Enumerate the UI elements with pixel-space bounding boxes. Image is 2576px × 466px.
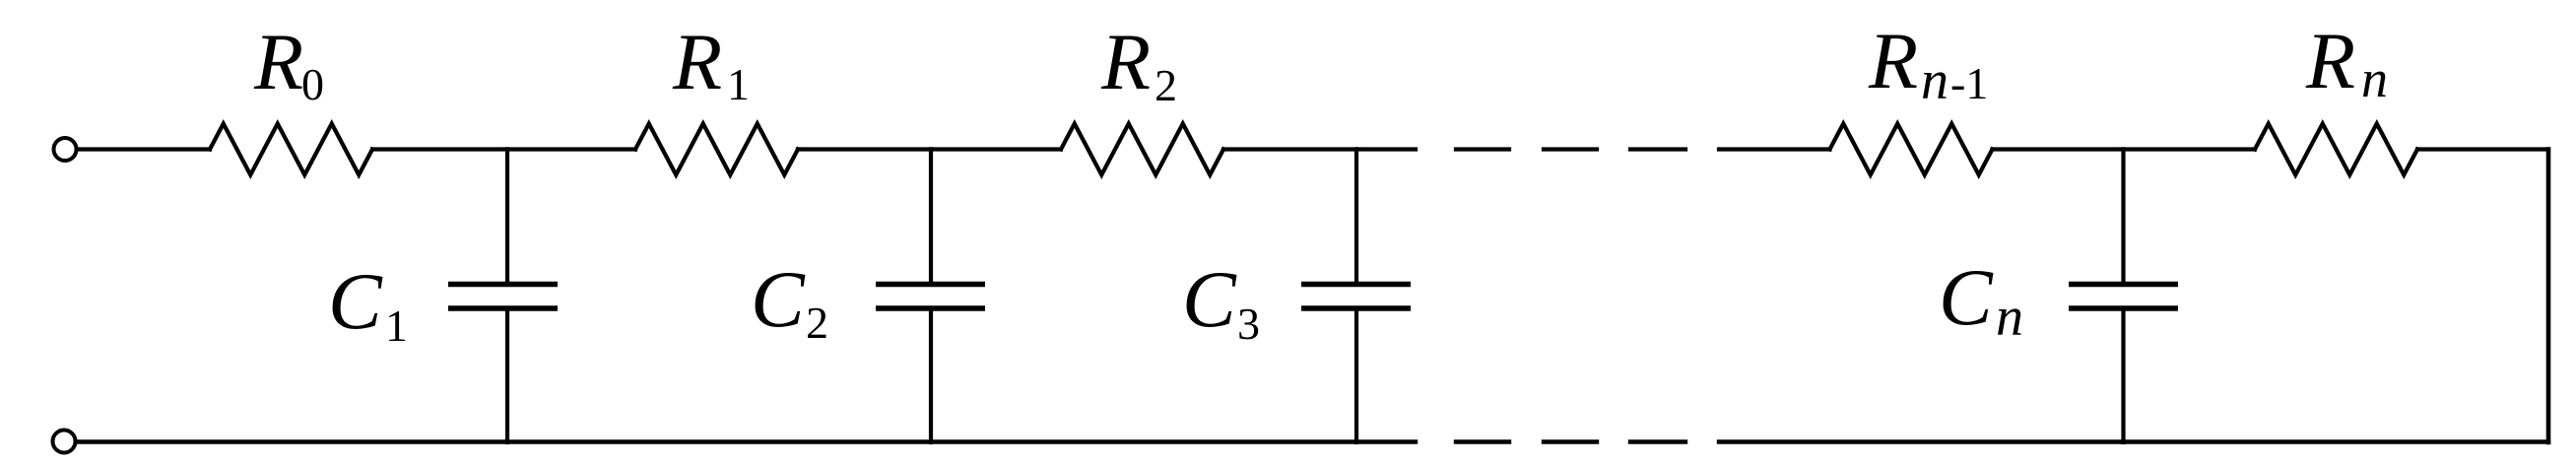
wire: bottom rail dash 1 bbox=[1456, 439, 1509, 443]
svg-text:0: 0 bbox=[301, 59, 324, 109]
svg-text:2: 2 bbox=[1155, 60, 1177, 110]
wire: bottom rail dash 2 bbox=[1544, 439, 1597, 443]
wire: top rail, node C3 to break bbox=[1356, 147, 1416, 151]
resistor R0 bbox=[210, 124, 372, 175]
svg-text:2: 2 bbox=[806, 298, 828, 348]
resistor R2 bbox=[1061, 124, 1223, 175]
svg-text:R: R bbox=[1868, 16, 1918, 105]
svg-text:n: n bbox=[2361, 49, 2388, 108]
svg-text:C: C bbox=[1939, 252, 1994, 342]
wire: bottom rail, break to right edge bbox=[1719, 439, 2548, 443]
wire: top rail, terminal to R0 bbox=[77, 147, 210, 151]
terminal: input top-left bbox=[54, 138, 77, 161]
wire: bottom rail dash 3 bbox=[1630, 439, 1685, 443]
capacitor C3 bbox=[1301, 150, 1411, 443]
resistor Rn bbox=[2255, 124, 2417, 175]
svg-text:C: C bbox=[1182, 254, 1237, 344]
svg-text:-1: -1 bbox=[1950, 58, 1988, 108]
svg-text:1: 1 bbox=[727, 59, 750, 109]
svg-text:R: R bbox=[672, 17, 722, 106]
wire: top rail dash 2 bbox=[1544, 147, 1597, 151]
capacitor Cn bbox=[2069, 150, 2178, 443]
svg-text:n: n bbox=[1921, 50, 1949, 111]
svg-text:R: R bbox=[1100, 17, 1151, 106]
svg-text:1: 1 bbox=[385, 300, 408, 351]
wire: top rail, R2 to node C3 bbox=[1223, 147, 1356, 151]
svg-text:C: C bbox=[328, 256, 383, 346]
resistor Rn-1 bbox=[1830, 124, 1993, 175]
terminal: input bottom-left bbox=[53, 431, 76, 453]
wire: top rail, break to Rn-1 bbox=[1719, 147, 1830, 151]
resistor R1 bbox=[635, 124, 798, 175]
wire: top rail, node C1 to R1 bbox=[507, 147, 635, 151]
wire: top rail, R1 to node C2 bbox=[798, 147, 931, 151]
wire: top rail dash 1 bbox=[1456, 147, 1509, 151]
wire: top rail, Rn-1 to node Cn bbox=[1993, 147, 2124, 151]
svg-text:3: 3 bbox=[1237, 299, 1260, 349]
wire: top rail dash 3 bbox=[1630, 147, 1685, 151]
wire: top rail, node Cn to Rn bbox=[2124, 147, 2256, 151]
wire: top rail, R0 to node C1 bbox=[372, 147, 507, 151]
wire: bottom rail, terminal to break bbox=[76, 439, 1416, 443]
wire: right edge vertical bbox=[2546, 150, 2551, 443]
svg-text:R: R bbox=[2305, 16, 2355, 105]
svg-text:C: C bbox=[751, 254, 806, 344]
svg-text:n: n bbox=[1996, 287, 2023, 348]
wire: top rail, Rn to right edge bbox=[2417, 147, 2548, 151]
wire: top rail, node C2 to R2 bbox=[931, 147, 1061, 151]
capacitor C2 bbox=[876, 150, 985, 443]
capacitor C1 bbox=[448, 150, 558, 443]
svg-text:R: R bbox=[253, 17, 303, 106]
